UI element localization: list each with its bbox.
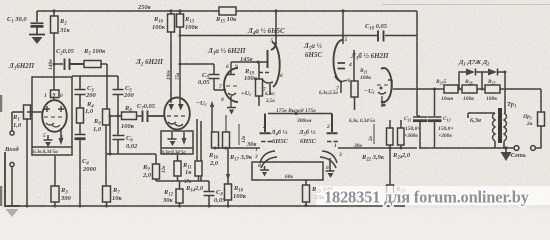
- label 12в arrow: [239, 124, 247, 145]
- pin labels 1 3 L5b: [334, 143, 342, 158]
- tube L1 grid dashes: [44, 116, 62, 118]
- resistor R8 100к horizontal: [122, 112, 137, 120]
- transformer Tr1 core: [498, 108, 502, 143]
- paper margin bottom: [0, 209, 550, 220]
- node: [257, 61, 260, 64]
- node at 54,64: [53, 63, 56, 66]
- tube L5a envelope: [333, 40, 343, 82]
- wire L3b anode to right: [393, 88, 417, 90]
- label R20 240 15в: [311, 186, 333, 201]
- tube L2 cathode arcs: [168, 122, 183, 126]
- tube L3b anode: [388, 80, 392, 89]
- resistor R7 10к: [103, 186, 111, 206]
- tube L3b cathode: [378, 92, 386, 107]
- ground inside box1: [44, 135, 53, 147]
- node dots diode branch: [458, 71, 507, 91]
- watermark band: [316, 186, 550, 205]
- label C12: [438, 116, 454, 139]
- wire primary bottom: [503, 141, 505, 148]
- ground L3a cathode: [226, 108, 236, 133]
- transformer Tr1 right winding: [504, 113, 507, 141]
- wire grid L3a: [214, 89, 226, 91]
- tube L2 anode plates: [169, 104, 184, 111]
- tube L3b envelope: [381, 68, 392, 102]
- tube L1 anode plates: [44, 106, 64, 112]
- heater arrow box2: [182, 132, 187, 145]
- resistor R18 100к: [225, 148, 232, 206]
- wire primary top: [504, 112, 505, 114]
- wire L2 outputs down: [197, 119, 201, 181]
- scan artifact top edge: [382, 4, 550, 6]
- resistor R11 1к: [174, 154, 181, 181]
- label C11: [404, 116, 421, 139]
- wire anode L3a to R19: [231, 61, 267, 63]
- capacitor C4 2000 electrolytic: [75, 135, 86, 207]
- wire R5 node down to R6: [106, 64, 108, 109]
- node R13 top: [178, 9, 181, 12]
- label L4b L5b names: [270, 129, 317, 145]
- label 190в 75в rotated: [167, 70, 181, 81]
- ground PSU: [501, 148, 512, 161]
- label 2в arrow: [369, 124, 374, 144]
- label R19 100к: [244, 68, 258, 82]
- svg-text:1828351 для forum.onliner.by: 1828351 для forum.onliner.by: [324, 188, 530, 207]
- wire feedback bus y118: [110, 115, 166, 117]
- resistor R6 1,0: [103, 109, 110, 186]
- node: [274, 9, 277, 12]
- tube L1 heater box: [32, 77, 72, 155]
- wire grid bus y148: [215, 147, 417, 149]
- label R9 2,0: [142, 164, 152, 179]
- resistor R26 100к: [462, 85, 477, 93]
- tube L3b grid dashes: [377, 84, 388, 86]
- label Pr1 2a: [522, 114, 533, 127]
- wire grid L2 from C7: [148, 115, 164, 117]
- scan artifact left edge: [0, 95, 2, 206]
- wire -Uc arrow: [210, 101, 214, 132]
- wire L4a anode from rail: [275, 11, 277, 42]
- diode D1: [466, 69, 476, 76]
- label R21 100к: [359, 68, 371, 81]
- node R13 y36: [179, 34, 182, 37]
- capacitor C1 30,0 electrolytic: [31, 11, 44, 34]
- resistor R20 240: [303, 180, 310, 205]
- resistor R21 100к: [351, 81, 358, 110]
- node: [341, 9, 344, 12]
- node dots L3b: [380, 87, 386, 107]
- ground inside box2: [168, 132, 177, 146]
- capacitor C8 0,05: [204, 181, 215, 206]
- wire output bus y113.5: [268, 113, 332, 115]
- ground main left: [4, 206, 20, 217]
- wire secondary bottom: [494, 141, 496, 148]
- label R4: [85, 101, 94, 115]
- tube L4a cathode: [262, 79, 273, 95]
- pin labels 6 7 L4a: [263, 73, 283, 93]
- tube L2 grid dashes: [167, 115, 185, 117]
- tube L4a grid dashes: [259, 72, 269, 74]
- label R16 2,0: [208, 152, 219, 167]
- resistor R14 2,0: [195, 161, 202, 181]
- node y36: [275, 34, 278, 37]
- capacitor C11 150,0x300в electrolytic: [413, 89, 427, 148]
- wire cathode node y181: [156, 180, 209, 182]
- pin labels 1 9 6: [44, 93, 63, 100]
- tube L5b anode: [327, 114, 338, 134]
- resistor R27 100к: [485, 85, 500, 93]
- fuse Pr1 2a: [536, 89, 545, 148]
- output tubes heater box: [252, 162, 323, 180]
- wire mains bottom y148: [419, 147, 514, 149]
- wire grid L3b: [353, 50, 355, 81]
- node R10 top: [169, 9, 172, 12]
- resistor R16 2,0: [212, 132, 219, 148]
- tube L2 heater box: [161, 131, 193, 154]
- label C4 2000: [82, 158, 97, 173]
- wire input shield left: [4, 152, 6, 207]
- wire B+ top rail 250v: [37, 10, 417, 12]
- node dots ground rail: [26, 204, 392, 208]
- resistor R23: [387, 148, 394, 205]
- capacitor C7 0,05: [143, 111, 148, 123]
- pin labels 6 9 8: [221, 64, 238, 103]
- label R7 10к: [112, 187, 123, 202]
- wire to C2: [54, 63, 63, 65]
- resistor R2 31k: [51, 11, 59, 64]
- node dots y118: [109, 115, 120, 118]
- capacitor C9 0,05: [180, 64, 220, 90]
- resistor R24 2,0: [398, 120, 405, 148]
- tube L4b grid dashes: [261, 141, 272, 143]
- label R8 100к: [121, 105, 135, 130]
- label R12 30к: [162, 189, 174, 204]
- wire PSU row y89: [417, 88, 541, 90]
- capacitor C12 150,0x300в electrolytic: [428, 89, 442, 148]
- label 6,3в 2,5а: [265, 92, 275, 104]
- tube L3a envelope half: [224, 68, 238, 102]
- node PSU ground: [504, 146, 507, 149]
- label R13 100к: [184, 16, 199, 31]
- tube L4b anode: [260, 114, 271, 134]
- resistor R1 1,0: [24, 105, 31, 206]
- wire diode branch: [459, 72, 505, 113]
- label R25 5: [435, 79, 454, 102]
- tube L5a anode plates: [338, 63, 346, 69]
- tube L5b cathode arcs: [320, 151, 337, 168]
- resistor R10 100к: [168, 11, 175, 103]
- label R18 100к: [233, 185, 247, 200]
- resistor R19 100к: [256, 62, 263, 106]
- watermark text: [324, 188, 530, 207]
- resistor grid stopper inside box1: [51, 64, 60, 101]
- wire right B+ vertical drop: [416, 11, 418, 89]
- resistor R5 100k: [84, 61, 107, 68]
- wire 6,3в tap: [468, 113, 495, 118]
- label R3 390: [60, 187, 72, 202]
- node C12 top: [433, 88, 436, 91]
- label C3 200: [85, 85, 97, 99]
- resistor R4 1,0: [77, 108, 84, 134]
- tube L3a anode: [227, 62, 235, 75]
- node y36: [342, 34, 345, 37]
- label C8 0,05: [214, 189, 226, 204]
- resistor R17 3,9к: [223, 132, 230, 148]
- label R6 1,0: [93, 118, 102, 133]
- transformer Tr1 left winding: [493, 113, 496, 141]
- tube L2 envelope: [164, 98, 190, 130]
- tube L3a cathode: [228, 93, 236, 107]
- tube L5b grid dashes: [327, 141, 338, 143]
- node anode1 junction: [52, 9, 55, 12]
- wire L5a anode from rail: [342, 11, 344, 44]
- wire cathode bus y76: [72, 75, 118, 77]
- tube L5a cathode: [335, 76, 347, 93]
- resistor R12 30к: [176, 181, 183, 206]
- label R2 31к: [59, 18, 71, 34]
- label C5 200: [123, 85, 135, 99]
- capacitor C2 0,05: [65, 59, 85, 71]
- label R27 100к: [486, 79, 497, 102]
- tube L4a anode plate: [268, 42, 277, 68]
- label R10 100к: [152, 16, 166, 31]
- tube L3a grid dashes: [226, 85, 237, 87]
- capacitor C6 0,02: [113, 116, 125, 154]
- diode D2: [488, 69, 498, 76]
- pin 6 and ground right of box3: [326, 163, 335, 178]
- resistor R9 2,0: [153, 154, 160, 181]
- label R26 100к: [463, 79, 474, 102]
- tube L1 cathode arcs: [46, 123, 60, 127]
- label R11 1к: [182, 162, 192, 176]
- resistor R15 10к in rail: [219, 7, 236, 15]
- wire mid horizontal bus y36: [180, 35, 417, 37]
- wire L5b cathode down: [329, 158, 331, 163]
- terminal circles mains: [514, 146, 535, 151]
- tube L4b cathode arcs: [260, 151, 277, 168]
- wire y154: [106, 116, 156, 154]
- capacitor C10 0,05: [378, 31, 384, 42]
- pin labels 6 7 L5a: [336, 78, 351, 92]
- wire ground rail bottom: [8, 205, 405, 207]
- pin 8 and ground inside box3: [258, 163, 269, 177]
- resistor R13 100к: [177, 11, 184, 104]
- node C9 top: [179, 63, 182, 66]
- tube L4a envelope: [272, 42, 280, 87]
- resistor R25 5 10вт: [444, 85, 458, 93]
- heater arrow box1: [59, 128, 64, 145]
- capacitor C5 200: [113, 76, 124, 118]
- label C9 0,05: [198, 72, 210, 86]
- label L5a 1/2 6N5C: [303, 42, 323, 59]
- resistor R3 390: [51, 155, 59, 206]
- label R1 1,0: [12, 114, 22, 129]
- tube L1 envelope: [42, 100, 67, 132]
- label C6 0,02: [126, 135, 138, 150]
- pin labels 1 3 L4b: [254, 147, 258, 160]
- node: [109, 153, 112, 156]
- capacitor C3 200: [75, 76, 86, 108]
- wire grid L1: [12, 111, 43, 113]
- resistor R22 3,9к: [387, 120, 394, 148]
- pin labels 5 4: [43, 133, 63, 141]
- input terminal Вход: [10, 112, 14, 206]
- ground under C1: [29, 35, 45, 45]
- node dots bus: [214, 147, 403, 150]
